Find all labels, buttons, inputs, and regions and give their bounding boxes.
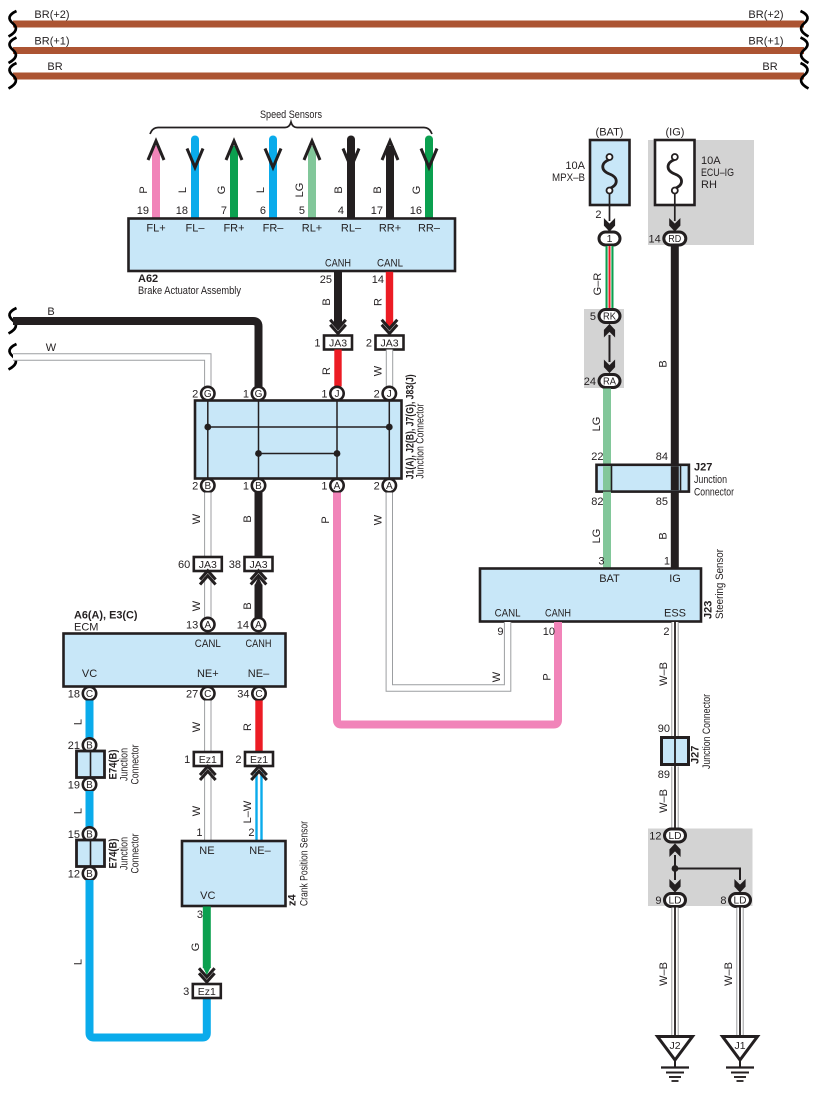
arrow down into RA: [604, 361, 614, 373]
svg-text:W: W: [191, 600, 203, 611]
pin 9 LD connector: [655, 894, 685, 907]
component J1(A),J2(B),J7(G),J83(J) junction connector box: [195, 401, 402, 479]
wire W from junction pin 2A to steering sensor CANL pin 9: [373, 493, 508, 689]
pin 2 G of junction connector: [192, 387, 214, 401]
svg-text:25: 25: [320, 274, 332, 286]
svg-text:A: A: [334, 481, 341, 492]
svg-text:G: G: [190, 943, 202, 952]
svg-text:3: 3: [598, 556, 604, 568]
break mark right of BR(+2): [801, 11, 809, 37]
svg-text:J2: J2: [669, 1040, 680, 1052]
svg-text:JA3: JA3: [380, 338, 398, 350]
label Speed Sensors: [260, 109, 322, 121]
svg-text:9: 9: [655, 895, 661, 907]
svg-text:FL–: FL–: [186, 223, 206, 235]
svg-text:(IG): (IG): [666, 127, 685, 139]
svg-text:A62: A62: [138, 273, 158, 285]
svg-text:1: 1: [314, 338, 320, 350]
svg-text:L: L: [255, 187, 267, 193]
junction dot right on lower internal bus: [334, 450, 341, 457]
wire speed sensor RR- (G) pin 16: [410, 140, 437, 220]
wire B from RD to J27 pin 84: [656, 246, 675, 465]
component J23 Steering Sensor: [480, 549, 726, 622]
svg-text:J23: J23: [703, 601, 715, 619]
wire P from junction pin 1A to steering sensor CANH pin 10: [320, 493, 558, 725]
svg-text:G–R: G–R: [592, 273, 604, 296]
brace over speed sensor wires: [150, 122, 432, 134]
pin 12 B of E74 lower: [68, 867, 96, 881]
svg-text:60: 60: [178, 559, 190, 571]
wire B from pin 1B to JA3 38: [242, 493, 259, 558]
svg-text:RD: RD: [668, 234, 681, 245]
component J27 junction connector lower: [662, 694, 714, 769]
svg-text:14: 14: [649, 233, 661, 245]
svg-text:B: B: [333, 186, 345, 193]
junction dot right on internal bus: [386, 424, 393, 431]
wire BR(+1) bus line: [13, 36, 804, 55]
svg-text:2: 2: [235, 754, 241, 766]
svg-text:B: B: [47, 306, 54, 318]
svg-text:LG: LG: [591, 529, 603, 544]
svg-text:NE–: NE–: [248, 668, 270, 680]
svg-text:RH: RH: [701, 179, 717, 191]
svg-text:W: W: [191, 805, 203, 816]
arrow down into LD 9: [670, 880, 680, 892]
svg-text:MPX–B: MPX–B: [552, 172, 585, 184]
svg-text:Brake Actuator Assembly: Brake Actuator Assembly: [138, 285, 241, 297]
svg-text:CANL: CANL: [377, 258, 403, 270]
svg-text:2: 2: [366, 338, 372, 350]
svg-text:10: 10: [543, 626, 555, 638]
svg-text:NE: NE: [199, 845, 214, 857]
svg-text:1: 1: [321, 388, 327, 400]
svg-text:12: 12: [649, 830, 661, 842]
break mark left of BR(+1): [9, 38, 17, 64]
svg-text:34: 34: [237, 688, 249, 700]
component z4 Crank Position Sensor: [182, 821, 311, 906]
svg-text:NE–: NE–: [249, 845, 271, 857]
svg-text:4: 4: [338, 205, 344, 217]
wire G-R from connector 1 to RK: [592, 246, 610, 309]
svg-text:LG: LG: [294, 183, 306, 198]
wire L through lower E74 connector: [86, 839, 94, 868]
svg-text:90: 90: [658, 723, 670, 735]
break mark on wire W left: [9, 344, 17, 370]
connector 38 JA3: [229, 557, 273, 571]
svg-text:P: P: [320, 516, 332, 523]
svg-text:RR–: RR–: [418, 223, 441, 235]
wire CANH pin 25 (B) from A62: [320, 272, 342, 330]
svg-text:BR: BR: [47, 61, 62, 73]
component E74(B) junction connector upper: [77, 744, 142, 784]
ground J1: [723, 1037, 758, 1082]
svg-text:B: B: [372, 186, 384, 193]
svg-text:J1: J1: [734, 1040, 745, 1052]
pin 14 RD connector: [649, 232, 686, 245]
connector 3 Ez1: [183, 984, 221, 998]
svg-text:A: A: [386, 481, 393, 492]
pin 34 C of ECM (NE-): [237, 687, 265, 701]
wire branch from dot to LD 8: [675, 869, 740, 881]
wire speed sensor FL+ (P) pin 19: [137, 141, 164, 219]
svg-text:1: 1: [664, 556, 670, 568]
svg-text:RA: RA: [603, 377, 616, 388]
svg-text:Connector: Connector: [130, 744, 142, 784]
svg-text:R: R: [242, 723, 254, 731]
svg-text:A6(A), E3(C): A6(A), E3(C): [74, 610, 138, 622]
connector arrow up below Ez1 1: [200, 766, 216, 780]
wire BR bus line: [13, 61, 804, 80]
svg-text:14: 14: [372, 274, 384, 286]
svg-text:27: 27: [186, 688, 198, 700]
pin 12 LD connector: [649, 829, 685, 842]
svg-text:W: W: [373, 514, 385, 525]
svg-text:W: W: [491, 671, 503, 682]
svg-text:B: B: [86, 780, 93, 791]
svg-text:8: 8: [720, 895, 726, 907]
arrow into connector 1: [604, 219, 614, 231]
pin 13 A of ECM: [186, 618, 214, 632]
pin 19 B of E74: [68, 778, 96, 792]
arrow up into LD 12: [670, 844, 680, 856]
connector arrow into JA3 (CANH): [330, 320, 346, 334]
wire L-W from Ez1 2 to crank sensor NE- pin 2: [242, 772, 259, 841]
svg-text:VC: VC: [82, 668, 97, 680]
svg-text:1: 1: [607, 233, 613, 245]
pin 1 G of junction connector: [243, 387, 265, 401]
svg-text:2: 2: [595, 209, 601, 221]
svg-text:B: B: [255, 481, 262, 492]
shaded area around ECU-IG fuse: [648, 140, 754, 245]
connector arrow into JA3 (CANL): [382, 320, 398, 334]
svg-text:CANH: CANH: [325, 258, 351, 270]
wire W from pin 2B to JA3 60: [191, 493, 208, 558]
wire from IG fuse to connector RD: [674, 194, 676, 222]
svg-text:A: A: [204, 620, 211, 631]
svg-text:2: 2: [374, 480, 380, 492]
wire W-B from steering sensor ESS pin 2 to J27 pin 90: [658, 622, 675, 738]
junction dot left on internal bus: [204, 424, 211, 431]
svg-text:B: B: [86, 869, 93, 880]
wire R from ECM pin 34 to Ez1 2: [242, 701, 259, 753]
svg-text:Junction Connector: Junction Connector: [415, 403, 427, 478]
svg-text:LD: LD: [669, 896, 682, 907]
wire speed sensor FR+ (G) pin 7: [216, 141, 242, 219]
junction dot on ground wire: [672, 865, 679, 872]
svg-text:JA3: JA3: [329, 338, 347, 350]
svg-text:Speed Sensors: Speed Sensors: [260, 109, 322, 121]
svg-text:2: 2: [192, 480, 198, 492]
wire R from JA3 to J1 pin: [321, 350, 338, 387]
pin 1 J of junction connector: [321, 387, 343, 401]
svg-text:C: C: [204, 689, 211, 700]
svg-text:5: 5: [299, 205, 305, 217]
svg-text:CANL: CANL: [195, 638, 221, 650]
svg-text:RL+: RL+: [302, 223, 323, 235]
component J27 junction connector upper: [597, 462, 735, 499]
svg-text:1: 1: [243, 388, 249, 400]
svg-text:24: 24: [584, 376, 596, 388]
svg-text:BAT: BAT: [599, 573, 620, 585]
svg-text:R: R: [321, 367, 333, 375]
shaded connector area RK-RA: [584, 309, 624, 388]
wire W-B from LD 8 to ground J1: [723, 908, 740, 1036]
ground J2: [658, 1037, 693, 1082]
wire W from JA3 60 to ECM pin 13: [191, 577, 208, 618]
svg-text:ECU–IG: ECU–IG: [701, 167, 734, 179]
svg-text:13: 13: [186, 619, 198, 631]
component A6(A),E3(C) ECM: [64, 610, 286, 687]
svg-text:BR(+1): BR(+1): [748, 36, 783, 48]
wire L through E74 connector: [86, 750, 94, 779]
pin 2 B of junction connector: [192, 479, 214, 493]
connector 1 Ez1: [184, 752, 222, 766]
break mark on wire B left: [9, 308, 17, 334]
svg-text:LD: LD: [734, 896, 747, 907]
svg-text:RK: RK: [603, 312, 616, 323]
svg-text:(BAT): (BAT): [596, 127, 624, 139]
svg-text:RL–: RL–: [341, 223, 362, 235]
svg-text:W: W: [191, 721, 203, 732]
svg-text:3: 3: [197, 909, 203, 921]
svg-text:CANL: CANL: [495, 608, 521, 620]
pin 5 RK connector: [590, 310, 620, 323]
svg-text:FL+: FL+: [146, 223, 165, 235]
junction dot left on lower internal bus: [255, 450, 262, 457]
connector 60 JA3: [178, 557, 222, 571]
svg-text:LD: LD: [669, 831, 682, 842]
svg-text:BR(+2): BR(+2): [748, 9, 783, 21]
svg-text:G: G: [255, 389, 263, 400]
svg-text:10A: 10A: [701, 155, 721, 167]
wire B from left to junction connector pin G1: [13, 306, 259, 387]
svg-text:19: 19: [68, 779, 80, 791]
svg-text:3: 3: [183, 986, 189, 998]
svg-text:BR(+2): BR(+2): [34, 9, 69, 21]
arrow up into RK: [604, 325, 614, 337]
wire B from J27 pin 85 to steering sensor IG pin 1: [656, 492, 675, 569]
pin 2 J of junction connector: [374, 387, 396, 401]
component E74(B) junction connector lower: [77, 833, 142, 873]
svg-text:2: 2: [663, 626, 669, 638]
arrow into connector RD: [670, 219, 680, 231]
svg-text:B: B: [242, 515, 254, 522]
svg-text:FR–: FR–: [263, 223, 285, 235]
svg-text:5: 5: [590, 311, 596, 323]
arrow down into LD 8: [735, 880, 745, 892]
svg-text:ESS: ESS: [664, 608, 686, 620]
svg-text:ECM: ECM: [74, 622, 98, 634]
svg-text:84: 84: [656, 451, 668, 463]
break mark left of BR: [9, 63, 17, 89]
svg-text:CANH: CANH: [246, 638, 272, 650]
svg-text:Ez1: Ez1: [198, 986, 216, 998]
wire W from JA3 to J2 pin: [373, 350, 390, 387]
svg-text:2: 2: [192, 388, 198, 400]
svg-text:B: B: [658, 360, 670, 367]
svg-text:1: 1: [184, 754, 190, 766]
svg-text:C: C: [255, 689, 262, 700]
svg-text:22: 22: [591, 451, 603, 463]
pin 15 B of E74 lower: [68, 827, 96, 841]
svg-text:W: W: [191, 513, 203, 524]
svg-text:19: 19: [137, 205, 149, 217]
svg-text:W–B: W–B: [658, 789, 670, 813]
wire W from Ez1 1 to crank sensor NE pin 1: [191, 772, 208, 841]
svg-text:W: W: [46, 342, 57, 354]
svg-text:W: W: [373, 365, 385, 376]
svg-text:C: C: [86, 689, 93, 700]
break mark right of BR(+1): [801, 38, 809, 64]
connector arrow up below JA3 38: [251, 571, 267, 585]
svg-text:2: 2: [374, 388, 380, 400]
connector 2 Ez1: [235, 752, 273, 766]
svg-text:82: 82: [591, 496, 603, 508]
svg-text:B: B: [242, 602, 254, 609]
svg-text:J: J: [335, 389, 340, 400]
svg-text:P: P: [138, 186, 150, 193]
svg-text:1: 1: [243, 480, 249, 492]
svg-text:BR: BR: [762, 61, 777, 73]
svg-text:L: L: [73, 959, 85, 965]
break mark right of BR: [801, 63, 809, 89]
pin 1 B of junction connector: [243, 479, 265, 493]
svg-text:10A: 10A: [565, 160, 585, 172]
wire between RK and RA: [609, 335, 611, 362]
wire CANL pin 14 (R) from A62: [372, 272, 393, 330]
shaded connector area LD: [648, 829, 753, 907]
internal bus wire G-J inside junction connector: [208, 426, 389, 428]
connector 1 JA3 (CANH): [314, 336, 352, 350]
wire W from ECM pin 27 to Ez1 1: [191, 701, 208, 753]
svg-text:14: 14: [237, 619, 249, 631]
pin 18 C of ECM (VC): [68, 687, 96, 701]
svg-text:L–W: L–W: [242, 800, 254, 823]
svg-text:L: L: [73, 719, 85, 725]
connector arrow into Ez1 3: [199, 968, 215, 982]
connector arrow up below JA3 60: [200, 571, 216, 585]
wire LG from J27 pin 82 to steering sensor BAT pin 3: [591, 492, 607, 569]
svg-text:NE+: NE+: [197, 668, 219, 680]
svg-text:17: 17: [371, 205, 383, 217]
svg-text:Connector: Connector: [694, 487, 734, 499]
connector arrow up below Ez1 2: [251, 766, 267, 780]
svg-text:6: 6: [260, 205, 266, 217]
svg-text:9: 9: [497, 626, 503, 638]
svg-text:Connector: Connector: [130, 833, 142, 873]
pin 24 RA connector: [584, 375, 620, 388]
svg-text:IG: IG: [669, 573, 681, 585]
svg-text:A: A: [255, 620, 262, 631]
svg-text:Junction: Junction: [694, 474, 727, 486]
svg-text:z4: z4: [287, 894, 299, 907]
wire W-B through J27 90/89: [674, 738, 676, 767]
wire speed sensor RL- (B) pin 4: [333, 140, 359, 220]
svg-text:1: 1: [196, 827, 202, 839]
wire B from JA3 38 to ECM pin 14: [242, 577, 263, 618]
svg-text:G: G: [204, 389, 212, 400]
label J1(A), J2(B), J7(G), J83(J) junction connector: [405, 374, 427, 479]
svg-text:CANH: CANH: [545, 608, 571, 620]
svg-text:J27: J27: [694, 462, 712, 474]
internal bus wire B-A inside junction connector: [259, 453, 338, 455]
svg-text:W–B: W–B: [723, 962, 735, 986]
svg-text:89: 89: [658, 769, 670, 781]
pin 21 B of E74: [68, 738, 96, 752]
wire from BAT fuse to connector 1: [595, 194, 609, 222]
wire speed sensor RR+ (B) pin 17: [371, 141, 398, 219]
pin 8 LD connector: [720, 894, 750, 907]
svg-text:38: 38: [229, 559, 241, 571]
component A62 Brake Actuator Assembly: [129, 219, 456, 298]
connector 2 JA3 (CANL): [366, 336, 404, 350]
svg-text:G: G: [216, 186, 228, 195]
svg-text:G: G: [411, 186, 423, 195]
wire from LD 12 to junction dot: [674, 855, 676, 880]
svg-text:VC: VC: [200, 890, 215, 902]
svg-text:Steering Sensor: Steering Sensor: [714, 549, 726, 619]
svg-text:B: B: [658, 532, 670, 539]
cell divider lines of J27 upper: [612, 466, 681, 490]
svg-text:BR(+1): BR(+1): [34, 36, 69, 48]
connector 1 (BAT feed): [599, 232, 620, 245]
svg-text:85: 85: [656, 496, 668, 508]
pin 2 A of junction connector: [374, 479, 396, 493]
pin 27 C of ECM (NE+): [186, 687, 214, 701]
wire B through J27 pin 84/85: [671, 466, 679, 490]
svg-text:B: B: [321, 298, 333, 305]
svg-text:J: J: [387, 389, 392, 400]
break mark left of BR(+2): [9, 11, 17, 37]
svg-text:L: L: [177, 187, 189, 193]
svg-text:W–B: W–B: [658, 662, 670, 686]
svg-text:12: 12: [68, 868, 80, 880]
wire LG through J27 pin 22/82: [603, 466, 611, 490]
svg-text:B: B: [204, 481, 211, 492]
svg-text:FR+: FR+: [223, 223, 244, 235]
wire speed sensor FR- (L) pin 6: [255, 140, 281, 220]
svg-text:J27: J27: [690, 746, 702, 764]
pin 14 A of ECM: [237, 618, 265, 632]
svg-text:Junction Connector: Junction Connector: [701, 694, 713, 769]
svg-text:18: 18: [176, 205, 188, 217]
pin 1 A of junction connector: [321, 479, 343, 493]
wire speed sensor FL- (L) pin 18: [176, 140, 203, 220]
wire W-B from J27 pin 89 to LD pin 12: [658, 767, 675, 829]
svg-text:RR+: RR+: [379, 223, 401, 235]
svg-text:L: L: [73, 808, 85, 814]
svg-text:P: P: [542, 673, 554, 680]
wire L from E74 19 to E74 15: [73, 791, 90, 828]
svg-text:2: 2: [248, 827, 254, 839]
wire W-B from LD 9 to ground J2: [658, 908, 675, 1036]
wire G from crank sensor VC pin 3 to Ez1 3: [190, 907, 211, 976]
wire L from E74 12 down and right to Ez1 3: [73, 880, 207, 1038]
svg-text:7: 7: [221, 205, 227, 217]
wire L from ECM pin 18 to E74 pin 21: [73, 701, 90, 739]
wire LG from RA to J27 pin 22: [591, 389, 607, 465]
svg-text:R: R: [373, 298, 385, 306]
fuse 10A MPX-B (BAT): [552, 127, 630, 206]
svg-text:LG: LG: [591, 417, 603, 432]
fuse 10A ECU-IG RH (IG): [655, 127, 734, 206]
svg-text:16: 16: [410, 205, 422, 217]
wire W from left to junction connector pin G2: [13, 342, 208, 387]
wire BR(+2) bus line: [13, 9, 804, 28]
svg-text:18: 18: [68, 688, 80, 700]
svg-text:W–B: W–B: [658, 962, 670, 986]
svg-text:1: 1: [321, 480, 327, 492]
